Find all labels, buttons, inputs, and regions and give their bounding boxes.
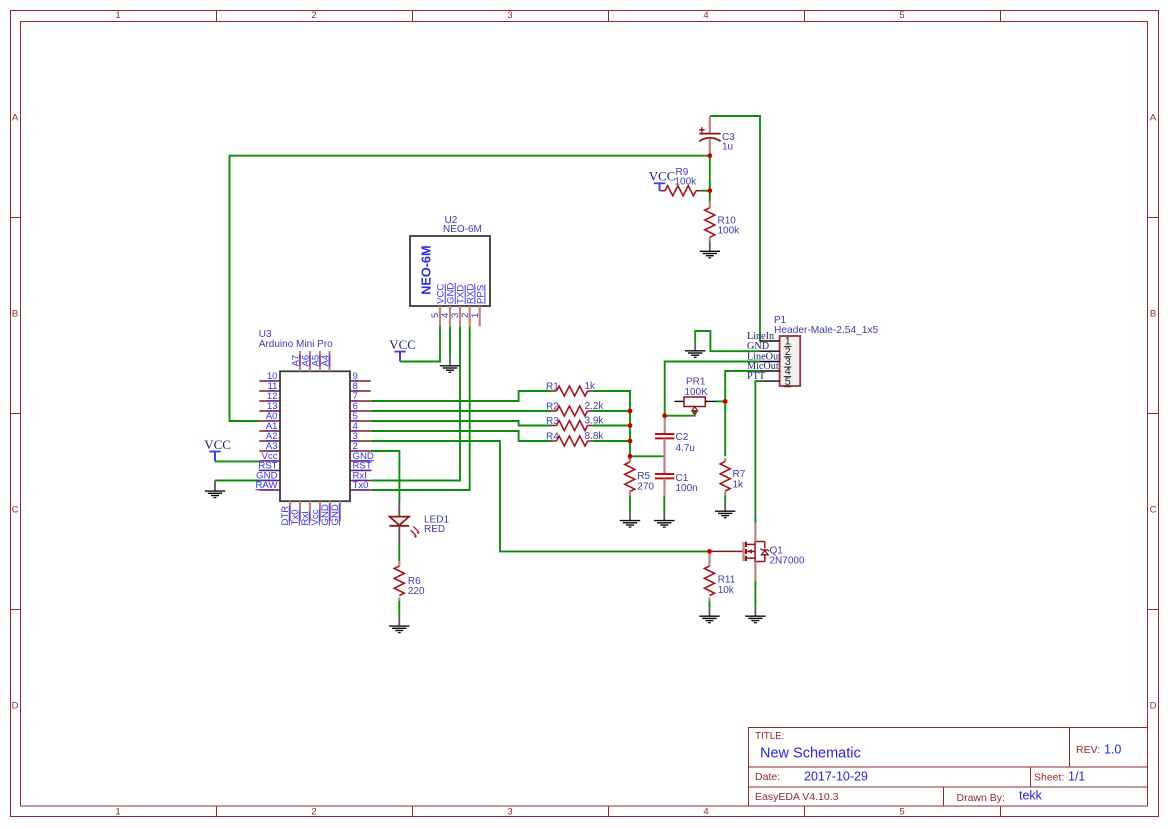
- wire PTT to Q1 drain: [755, 381, 759, 523]
- net labels LineIn GND LineOut MicOut PTT: [747, 331, 781, 382]
- svg-text:100K: 100K: [685, 387, 709, 398]
- junction node A0/C3/R9: [707, 153, 712, 158]
- svg-text:2: 2: [311, 10, 316, 21]
- capacitor C3 polarized: [699, 116, 735, 156]
- svg-text:D: D: [12, 701, 19, 712]
- svg-text:Date:: Date:: [755, 771, 780, 783]
- wire node A to A0: [230, 156, 710, 421]
- svg-text:8.8k: 8.8k: [585, 431, 605, 442]
- resistor R2: [546, 401, 604, 416]
- wire Q1 source to ground: [754, 580, 756, 606]
- VCC flag at U3 Vcc: [204, 437, 231, 462]
- wire node to PR1 wiper: [665, 411, 695, 416]
- svg-text:NEO-6M: NEO-6M: [443, 224, 482, 235]
- wire node to R7: [724, 401, 726, 456]
- R11 bottom stub: [708, 598, 710, 602]
- svg-text:tekk: tekk: [1019, 789, 1043, 803]
- svg-text:Header-Male-2.54_1x5: Header-Male-2.54_1x5: [774, 325, 879, 336]
- capacitor C1: [655, 473, 698, 496]
- svg-text:5: 5: [899, 807, 904, 818]
- svg-text:1k: 1k: [585, 381, 597, 392]
- U3 bottom pin stubs: [290, 501, 340, 521]
- wire C1 to ground: [663, 496, 665, 512]
- svg-text:4: 4: [703, 10, 708, 21]
- resistor R10: [705, 208, 740, 238]
- junction R9/R10: [707, 188, 712, 193]
- wire MicOut net: [725, 371, 759, 401]
- svg-text:RAW: RAW: [255, 480, 278, 491]
- svg-text:Arduino Mini Pro: Arduino Mini Pro: [259, 339, 333, 350]
- wire NEO VCC pin to VCC flag: [400, 326, 440, 361]
- svg-text:C2: C2: [676, 432, 689, 443]
- R7 top stub: [724, 458, 726, 462]
- ground at R6: [389, 616, 409, 633]
- wire R11 to ground: [709, 601, 711, 608]
- svg-text:1/1: 1/1: [1068, 770, 1085, 784]
- svg-text:1: 1: [115, 807, 120, 818]
- svg-text:NEO-6M: NEO-6M: [420, 245, 434, 294]
- U3 top pin names A7 A6 A5 A4: [290, 354, 331, 366]
- wire R1 to bus: [593, 391, 630, 456]
- svg-text:Tx0: Tx0: [353, 480, 369, 491]
- wire pin5 to R3: [371, 421, 551, 426]
- svg-text:1k: 1k: [733, 479, 745, 490]
- wire R5 to ground: [629, 496, 631, 512]
- svg-text:2: 2: [311, 807, 316, 818]
- svg-text:1: 1: [470, 313, 481, 318]
- connector P1 body: [780, 336, 801, 386]
- svg-text:R4: R4: [546, 432, 559, 443]
- wire R2 to bus: [593, 410, 630, 412]
- wire R7 to ground: [724, 495, 726, 503]
- svg-text:1u: 1u: [722, 142, 733, 153]
- svg-text:PPS: PPS: [475, 285, 486, 304]
- wire NEO TXD to RxI row: [371, 326, 460, 480]
- ground at NEO GND: [440, 357, 460, 373]
- svg-text:100k: 100k: [718, 226, 741, 237]
- svg-text:VCC: VCC: [389, 337, 416, 352]
- R6 bottom stub: [398, 598, 400, 602]
- svg-text:220: 220: [408, 586, 425, 597]
- title block frame: [749, 728, 1149, 807]
- U2 pin numbers 5 4 3 2 1: [430, 312, 481, 318]
- svg-text:REV:: REV:: [1076, 744, 1100, 756]
- svg-text:B: B: [12, 309, 18, 320]
- R10 top stub: [709, 201, 711, 207]
- ground at R5: [620, 511, 640, 527]
- U3 right pin names: [353, 371, 374, 491]
- R11 top stub: [708, 554, 710, 566]
- ground at R11: [699, 608, 719, 623]
- svg-text:C: C: [1150, 505, 1157, 516]
- wire LineOut net: [665, 362, 760, 416]
- resistor R9: [660, 167, 702, 196]
- wire NEO GND pin down: [449, 326, 451, 356]
- IC U2 NEO-6M body: [410, 236, 490, 306]
- resistor R3: [546, 416, 604, 431]
- svg-text:C: C: [12, 505, 19, 516]
- svg-text:A4: A4: [320, 354, 331, 366]
- R7 bottom stub: [724, 492, 726, 496]
- ground at R7: [715, 503, 735, 518]
- U3 left pin names: [255, 371, 278, 491]
- svg-text:1: 1: [115, 10, 120, 21]
- svg-text:1.0: 1.0: [1104, 743, 1121, 757]
- svg-text:A: A: [12, 113, 19, 124]
- junction C2/PR1/LineOut: [662, 413, 667, 418]
- VCC flag at R9: [649, 169, 676, 191]
- wire U3 GND pin to ground: [215, 480, 259, 482]
- potentiometer PR1: [674, 377, 716, 414]
- resistor R1: [546, 381, 596, 396]
- svg-text:4: 4: [703, 807, 708, 818]
- svg-text:C1: C1: [676, 473, 689, 484]
- capacitor C2: [655, 416, 695, 474]
- U3 left pin lines: [259, 381, 280, 490]
- svg-text:EasyEDA V4.10.3: EasyEDA V4.10.3: [755, 791, 839, 803]
- wire PR1 right to node: [716, 400, 725, 402]
- R5 top stub: [629, 456, 631, 462]
- svg-text:3: 3: [507, 10, 512, 21]
- svg-text:R3: R3: [546, 416, 559, 427]
- svg-text:TITLE:: TITLE:: [755, 731, 784, 742]
- wire VCC flag to U3 Vcc pin: [215, 460, 259, 462]
- wire R4 to bus: [593, 440, 630, 442]
- wire pin6 to R2: [371, 410, 551, 412]
- LED LED1: [390, 500, 450, 547]
- wire pin3 to Q1 gate node: [371, 441, 710, 551]
- svg-text:2N7000: 2N7000: [770, 556, 805, 567]
- wire bus to C2 column: [630, 455, 664, 457]
- svg-text:B: B: [1150, 309, 1156, 320]
- U3 right pin lines: [350, 381, 371, 490]
- svg-text:100k: 100k: [675, 176, 698, 187]
- svg-text:New Schematic: New Schematic: [760, 746, 861, 762]
- resistor R11: [705, 566, 736, 596]
- junction bus R3: [628, 423, 633, 428]
- svg-text:PTT: PTT: [747, 371, 766, 382]
- svg-text:R2: R2: [546, 402, 559, 413]
- svg-text:Drawn By:: Drawn By:: [957, 792, 1005, 804]
- wire pin7 to R1: [371, 391, 551, 401]
- junction bus R4: [628, 439, 633, 444]
- U2 pin names VCC GND TXD RXD PPS: [436, 283, 487, 304]
- svg-text:PR1: PR1: [686, 377, 706, 388]
- svg-text:RED: RED: [424, 524, 445, 535]
- U3 bottom pin names DTR Tx0 RxI Vcc GND GND: [280, 504, 341, 525]
- svg-text:2.2k: 2.2k: [585, 401, 605, 412]
- resistor R5: [625, 462, 655, 492]
- ground at P1 GND net: [685, 340, 705, 357]
- wire LED1 to R6: [398, 547, 400, 562]
- ground at R10: [700, 241, 720, 258]
- wire R3 to bus: [593, 425, 630, 427]
- svg-text:GND: GND: [330, 504, 341, 525]
- ground at C1: [654, 511, 674, 527]
- svg-text:5: 5: [899, 10, 904, 21]
- svg-text:5: 5: [785, 376, 791, 388]
- ground at U3 GND: [205, 481, 225, 498]
- svg-text:2017-10-29: 2017-10-29: [804, 770, 868, 784]
- svg-text:100n: 100n: [676, 483, 698, 494]
- R10 bottom stub: [709, 237, 711, 241]
- wire C3 bottom node to R9 node: [709, 156, 711, 191]
- wire pin4 to R4: [371, 431, 551, 441]
- R5 bottom stub: [629, 492, 631, 497]
- P1 pin leads: [760, 341, 780, 381]
- svg-text:3: 3: [507, 807, 512, 818]
- svg-text:270: 270: [637, 481, 654, 492]
- transistor Q1 2N7000: [710, 523, 805, 580]
- VCC flag at NEO-6M: [389, 337, 416, 362]
- U3 top pin stubs: [300, 351, 330, 371]
- junction PR1/R7/MicOut: [723, 399, 728, 404]
- wire bus node to R5: [629, 456, 631, 459]
- resistor R4: [546, 431, 604, 446]
- svg-text:R5: R5: [637, 471, 650, 482]
- svg-text:Sheet:: Sheet:: [1034, 772, 1064, 784]
- resistor R7: [720, 462, 746, 492]
- junction Q1 gate/R11: [707, 549, 712, 554]
- resistor R6: [394, 566, 425, 597]
- svg-text:4.7u: 4.7u: [676, 443, 695, 454]
- wire C3 top to P1 LineIn: [710, 116, 760, 341]
- IC U3 Arduino Mini Pro body: [280, 371, 350, 501]
- svg-text:VCC: VCC: [649, 169, 676, 184]
- junction bus R5: [628, 454, 633, 459]
- wire NEO RXD to Tx0 row: [371, 326, 470, 490]
- wire R9 node to R10: [709, 191, 711, 202]
- wire R6 to ground: [398, 601, 400, 616]
- wire R9 to node: [701, 190, 710, 192]
- wire pin2 to LED1: [371, 451, 399, 500]
- P1 pin numbers 1-5: [784, 336, 791, 388]
- svg-text:10k: 10k: [718, 585, 735, 596]
- ground at Q1 source: [745, 606, 765, 622]
- junction bus R2: [628, 409, 633, 414]
- svg-text:3.9k: 3.9k: [585, 416, 605, 427]
- svg-text:A: A: [1150, 113, 1157, 124]
- R6 top stub: [398, 561, 400, 566]
- svg-text:VCC: VCC: [204, 437, 231, 452]
- svg-text:D: D: [1150, 701, 1157, 712]
- U2 pin stubs: [440, 306, 480, 326]
- svg-text:R1: R1: [546, 382, 559, 393]
- wire GND net to P1 pin2: [695, 331, 759, 351]
